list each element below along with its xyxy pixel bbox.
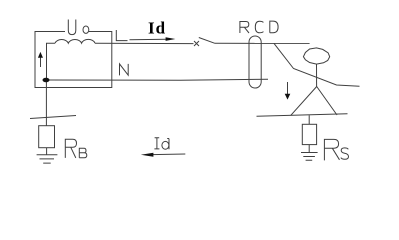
svg-text:Id: Id: [148, 19, 166, 38]
